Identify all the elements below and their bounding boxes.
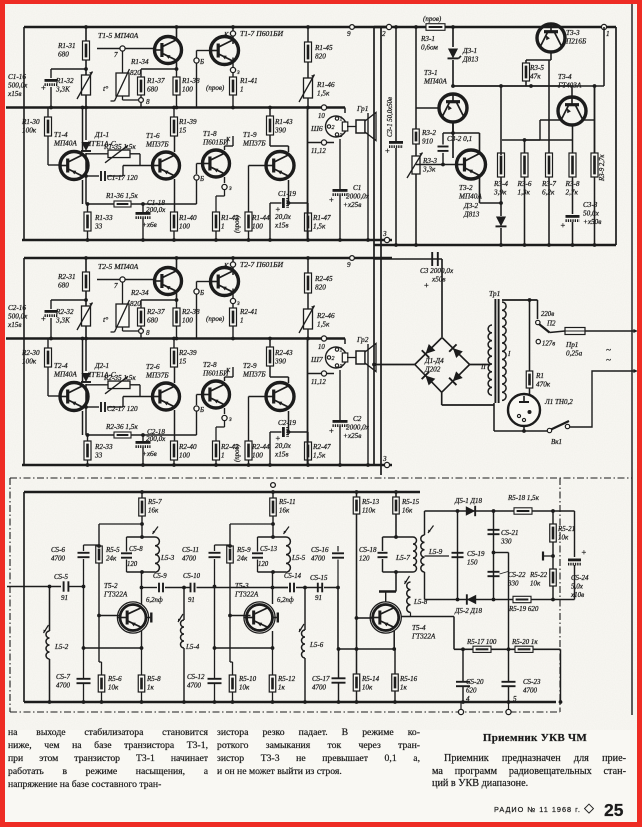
wire [457, 511, 459, 600]
junction [523, 138, 527, 142]
label t2- [103, 315, 108, 324]
label C2lab [353, 415, 362, 423]
junction [461, 700, 465, 704]
svg-text:+х6в: +х6в [142, 450, 157, 458]
svg-text:390: 390 [274, 127, 286, 135]
capacitor C1-17 [101, 171, 105, 181]
junction [140, 490, 144, 494]
label T1-5 [98, 31, 139, 40]
wire [383, 536, 414, 538]
wire [307, 258, 309, 273]
label L5-7lab [395, 553, 410, 562]
label Д3-2lab [463, 202, 480, 219]
label R1-34b [130, 69, 141, 77]
label Д1-Д4lab [424, 357, 444, 374]
wire [595, 85, 605, 87]
svg-text:С5-14: С5-14 [284, 573, 302, 580]
wire [424, 511, 426, 535]
node 10 (2-) [321, 336, 326, 341]
label R5-17lab [466, 638, 497, 646]
label C5-22lab [507, 571, 526, 588]
wire [107, 406, 123, 408]
svg-text:х15в: х15в [274, 451, 289, 459]
junction [172, 106, 176, 110]
svg-text:33: 33 [94, 452, 103, 460]
wire [525, 60, 527, 63]
svg-text:3,3к: 3,3к [422, 166, 436, 174]
wire [500, 153, 502, 155]
wire [97, 279, 154, 281]
wire [230, 615, 251, 617]
wire [508, 649, 510, 682]
junction [271, 522, 275, 526]
svg-text:П216Б: П216Б [565, 38, 587, 46]
resistor R1-38 [173, 77, 180, 95]
label R2-39 [178, 349, 197, 366]
transistor T1-4 МП40А [60, 152, 88, 180]
junction [392, 647, 396, 651]
wire [230, 523, 273, 525]
junction [247, 238, 251, 242]
label 127вlab [542, 341, 555, 348]
junction [271, 700, 275, 704]
wire [529, 388, 531, 394]
svg-text:С2-19: С2-19 [278, 419, 296, 427]
resistor R1 470к [526, 371, 533, 388]
wire [101, 662, 103, 675]
wire [214, 648, 216, 679]
svg-text:620: 620 [466, 687, 477, 695]
wire [196, 295, 198, 339]
label R5-16lab [399, 675, 418, 692]
junction [306, 106, 310, 110]
svg-text:С1: С1 [353, 184, 361, 192]
wire [571, 86, 573, 97]
wire bus [24, 701, 556, 704]
junction [84, 67, 88, 71]
svg-text:х50в: х50в [431, 276, 446, 284]
svg-text:R3-6: R3-6 [517, 180, 532, 188]
wire [50, 318, 52, 338]
junction [81, 106, 85, 110]
junction [175, 25, 179, 29]
resistor R5-10 [229, 675, 236, 692]
footer [494, 805, 581, 814]
wire [174, 410, 176, 441]
svg-text:L5-9: L5-9 [428, 548, 443, 556]
capacitor C2-16 [41, 311, 58, 323]
svg-text:Т2-7 П601БИ: Т2-7 П601БИ [240, 260, 284, 269]
label C5-5val [61, 594, 68, 602]
svg-text:3,3К: 3,3К [55, 86, 71, 94]
junction [231, 256, 235, 260]
capacitor C3 [432, 252, 438, 266]
svg-text:t°: t° [103, 84, 108, 93]
capacitor C5-9 [159, 583, 163, 593]
label C3lab [420, 267, 454, 275]
label Д5-2lab [454, 607, 482, 615]
wire [225, 376, 234, 378]
wire [174, 179, 176, 212]
wire [50, 69, 52, 78]
label (пров)1-b [234, 215, 241, 233]
junction [97, 614, 101, 618]
transistor T2-8 П601БИ [203, 381, 230, 408]
transistor T3-1 МП40А [439, 94, 467, 122]
label L5-2lab [54, 643, 69, 651]
svg-text:(пров): (пров) [206, 84, 225, 92]
label R1-45 [314, 44, 333, 61]
tuning arrow L5-9 [428, 526, 434, 534]
wire [453, 617, 455, 650]
label C2-17 [107, 405, 138, 413]
svg-text:R3-1: R3-1 [420, 35, 435, 43]
svg-text:R2-43: R2-43 [274, 349, 293, 357]
svg-text:2: 2 [382, 30, 386, 38]
svg-text:1к: 1к [400, 684, 408, 692]
svg-text:С5-21: С5-21 [501, 529, 519, 537]
label R2-45 [314, 275, 333, 292]
wire [552, 542, 554, 569]
label R5-13lab [361, 498, 380, 515]
svg-text:С5-19: С5-19 [467, 550, 485, 558]
diode Д1-1 ТГЕ1А-С [81, 142, 91, 151]
wire [425, 599, 575, 601]
label R2-40 [178, 443, 197, 460]
junction [336, 586, 340, 590]
junction [175, 337, 179, 341]
wire bus [6, 337, 345, 340]
label R2-44 [251, 443, 270, 460]
wire [401, 616, 411, 618]
svg-text:910: 910 [422, 138, 433, 146]
svg-text:Л1 ТН0,2: Л1 ТН0,2 [544, 398, 573, 406]
capacitor C1-16 [41, 80, 58, 92]
connector Ш6 [326, 116, 348, 139]
wire [357, 617, 372, 619]
wire [356, 514, 358, 674]
svg-text:10: 10 [318, 344, 325, 351]
wire [373, 27, 375, 465]
svg-text:R2-45: R2-45 [314, 275, 333, 283]
resistor R1-42 [213, 212, 220, 231]
terminal 4 [458, 709, 463, 714]
wire [416, 164, 457, 166]
label R3-6lab [517, 180, 532, 197]
wire [82, 411, 84, 435]
wire [215, 196, 217, 212]
svg-text:Гр2: Гр2 [356, 335, 369, 344]
svg-text:10к: 10к [362, 684, 373, 692]
trimmer R2-32 [77, 303, 93, 331]
wire [122, 397, 124, 408]
svg-text:150: 150 [467, 559, 478, 567]
wire [552, 511, 554, 524]
wire [415, 27, 417, 108]
svg-text:з: з [228, 416, 232, 423]
label R5-10lab [238, 675, 257, 692]
svg-text:~: ~ [606, 346, 611, 356]
wire [232, 58, 234, 68]
svg-text:24к: 24к [237, 555, 248, 563]
label Вк1lab [551, 438, 562, 446]
label 220вlab [541, 311, 554, 318]
capacitor C5-6 [78, 553, 90, 557]
junction [86, 463, 90, 467]
svg-text:3,9к: 3,9к [493, 189, 507, 197]
wire [47, 338, 49, 348]
label C1-18 [147, 199, 165, 207]
wire bus [374, 26, 616, 29]
label C2lab3 [343, 432, 361, 440]
svg-text:+: + [582, 547, 587, 557]
wire [196, 64, 198, 108]
transistor T1-7 П601БИ [211, 37, 239, 65]
wire [524, 140, 526, 153]
junction [271, 570, 275, 574]
svg-text:1: 1 [240, 317, 244, 325]
label R1-36 [105, 192, 138, 200]
junction [213, 585, 217, 589]
wire [308, 142, 335, 144]
label Ш6lab [310, 124, 323, 133]
svg-text:Т2-8: Т2-8 [203, 361, 217, 369]
junction [492, 509, 496, 513]
svg-text:R1-43: R1-43 [274, 118, 293, 126]
wire [248, 166, 250, 213]
transistor T3-4 ГТ403А [558, 97, 586, 125]
svg-text:Т3-4: Т3-4 [558, 73, 572, 81]
junction [213, 646, 217, 650]
svg-text:Б: Б [199, 59, 204, 66]
resistor R1-37 [138, 77, 145, 95]
svg-text:Д3-1: Д3-1 [462, 47, 477, 55]
label (пров) 2- [206, 315, 225, 323]
wire [479, 176, 481, 204]
transistor T2-9 МП37Б [266, 383, 294, 411]
svg-text:з: з [228, 185, 232, 192]
node 8 (1-) [139, 98, 144, 103]
resistor R3-4 [498, 153, 505, 177]
text column 1 [8, 727, 208, 740]
junction [141, 202, 145, 206]
capacitor C5-21 [488, 530, 500, 534]
svg-text:С3-2 0,1: С3-2 0,1 [447, 135, 472, 143]
svg-text:R5-14: R5-14 [361, 675, 380, 683]
svg-text:+х6в: +х6в [142, 221, 157, 229]
junction [82, 700, 86, 704]
junction [366, 463, 370, 467]
wire [141, 572, 143, 604]
svg-text:R2-32: R2-32 [55, 308, 74, 316]
junction [451, 25, 455, 29]
resistor R2-45 [305, 273, 312, 293]
coil L5-5 [286, 537, 290, 572]
wire [86, 434, 197, 436]
label C5-7lab [56, 673, 71, 690]
junction [551, 598, 555, 602]
resistor R5-21 [550, 524, 557, 542]
svg-text:1к: 1к [278, 684, 286, 692]
svg-text:L5-2: L5-2 [54, 643, 69, 651]
resistor R2-36 [114, 432, 131, 438]
trimmer R2-46 [299, 306, 315, 334]
contact bar [543, 552, 553, 561]
wire [337, 588, 339, 650]
wire [526, 59, 551, 61]
svg-text:х10в: х10в [570, 591, 584, 599]
label T1-6 [145, 132, 169, 149]
wire [539, 120, 541, 140]
svg-text:R1-34: R1-34 [130, 58, 149, 66]
junction [48, 585, 52, 589]
junction [84, 405, 88, 409]
svg-text:R1-36 1,5к: R1-36 1,5к [105, 192, 138, 200]
junction [559, 700, 563, 704]
wire [47, 367, 49, 396]
svg-text:200,0х: 200,0х [146, 435, 166, 443]
junction [507, 647, 511, 651]
svg-text:Т1-8: Т1-8 [203, 130, 217, 138]
svg-text:200,0х: 200,0х [146, 206, 166, 214]
svg-text:С5-17: С5-17 [312, 675, 330, 683]
resistor R1-41 [230, 77, 237, 95]
svg-text:+х25в: +х25в [343, 432, 361, 440]
wire [382, 559, 384, 572]
svg-text:R5-13: R5-13 [361, 498, 380, 506]
wire [452, 122, 454, 158]
svg-text:С5-23: С5-23 [523, 678, 541, 686]
junction [268, 337, 272, 341]
junction [140, 522, 144, 526]
wire [230, 661, 233, 663]
wire [50, 300, 52, 309]
wire [258, 571, 287, 573]
wire [424, 572, 426, 600]
label R5-18lab [507, 494, 540, 502]
label C1-19b [274, 213, 292, 230]
label П2lab [546, 320, 556, 328]
coil winding I [502, 302, 506, 400]
junction [231, 337, 235, 341]
label L5-4lab [185, 643, 200, 651]
node 9 (1-) [350, 25, 355, 30]
label R2-31 [57, 273, 76, 290]
svg-text:Ш6: Ш6 [310, 124, 323, 133]
svg-text:С3 2000,0х: С3 2000,0х [420, 267, 454, 275]
resistor R1-39 [171, 117, 178, 136]
junction [214, 463, 218, 467]
svg-text:3: 3 [382, 230, 387, 238]
label R5-14lab [361, 675, 380, 692]
wire [196, 181, 198, 205]
wire [395, 27, 397, 141]
wire [99, 661, 102, 663]
svg-text:2000,0х: 2000,0х [346, 193, 370, 201]
label C5-11lab [182, 546, 199, 563]
label R3-3lab [422, 157, 437, 174]
wire [176, 293, 178, 300]
junction [394, 490, 398, 494]
wire [232, 136, 234, 146]
svg-text:Вк1: Вк1 [551, 438, 562, 446]
svg-text:1,5к: 1,5к [317, 90, 330, 98]
label T2-9 [242, 362, 266, 379]
resistor R1-47 [305, 213, 312, 231]
ukv block border [10, 478, 632, 712]
junction [172, 337, 176, 341]
svg-text:7: 7 [114, 51, 118, 59]
wire [85, 291, 87, 306]
svg-text:R1-44: R1-44 [251, 214, 270, 222]
node 11,12 (2-) [321, 371, 326, 376]
coil L5-9 [421, 535, 425, 572]
wire [49, 659, 51, 702]
label C2-19 [278, 419, 296, 427]
wire [337, 546, 339, 552]
trimmer R1-46 [299, 75, 315, 103]
label R5-22lab [529, 571, 548, 588]
wire [142, 587, 158, 589]
svg-text:470к: 470к [536, 381, 551, 389]
label R2-38 [181, 308, 200, 325]
junction [81, 337, 85, 341]
label C5-16lab [311, 546, 329, 563]
label R2-47 [312, 443, 331, 460]
svg-text:5: 5 [513, 695, 517, 703]
junction [528, 298, 532, 302]
wire [83, 545, 85, 551]
label Гр1lab [356, 104, 368, 113]
wire [594, 86, 596, 153]
label R2-43 [274, 349, 293, 366]
label C1lab2 [346, 193, 370, 201]
svg-text:8: 8 [146, 98, 150, 106]
svg-text:Д813: Д813 [463, 211, 480, 219]
diode Д5-2 Д18 [467, 594, 476, 604]
wire [176, 27, 178, 38]
label C1lab [353, 184, 361, 192]
wire [270, 376, 289, 378]
wire [339, 139, 341, 189]
junction [306, 25, 310, 29]
wire [339, 195, 341, 240]
wire [98, 563, 100, 662]
label L5-3lab [160, 554, 175, 562]
wire [523, 426, 525, 431]
node 7 (2-) [120, 277, 125, 282]
wire [288, 377, 290, 383]
wire [572, 222, 574, 245]
junction [507, 700, 511, 704]
trimmer R1-35 [105, 145, 130, 163]
label R2-34 [130, 289, 149, 297]
wire [452, 60, 454, 86]
svg-text:С3-3: С3-3 [583, 201, 598, 209]
resistor R3-5 [523, 63, 530, 81]
svg-text:МП40А: МП40А [53, 371, 77, 379]
trimmer R1-32 [77, 72, 93, 100]
svg-text:50,0х: 50,0х [583, 210, 600, 218]
wire [140, 69, 142, 77]
wire [454, 648, 561, 650]
svg-text:15: 15 [179, 127, 187, 135]
resistor R5-7 [139, 498, 146, 516]
wire [443, 132, 480, 134]
capacitor C5-13 [252, 553, 263, 557]
transistor T5-4 ГТ322А [370, 602, 401, 633]
node 8 (2-) [139, 329, 144, 334]
